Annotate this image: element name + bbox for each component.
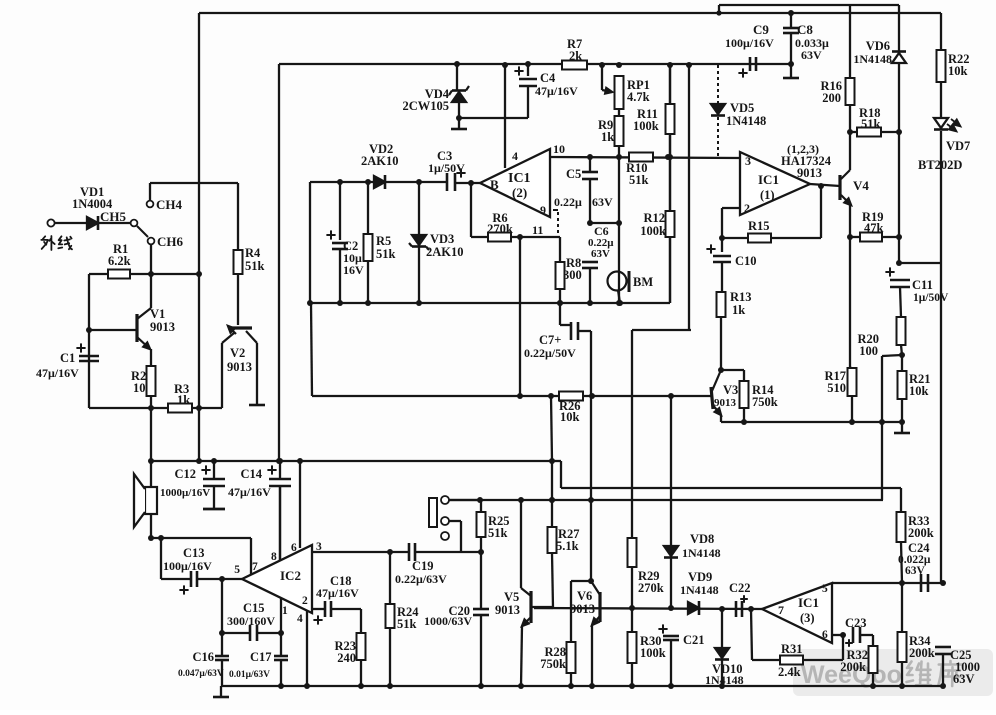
svg-text:2AK10: 2AK10	[361, 154, 399, 168]
svg-text:1μ/50V: 1μ/50V	[913, 292, 949, 304]
svg-text:10k: 10k	[909, 384, 929, 398]
svg-text:51k: 51k	[488, 526, 508, 540]
svg-text:C13: C13	[183, 546, 205, 560]
svg-text:IC1: IC1	[798, 595, 819, 610]
svg-text:100μ/16V: 100μ/16V	[725, 36, 774, 50]
svg-text:BM: BM	[633, 275, 653, 289]
svg-text:9013: 9013	[227, 360, 252, 374]
svg-text:5.1k: 5.1k	[556, 539, 579, 553]
svg-text:C10: C10	[735, 254, 757, 268]
svg-text:2AK10: 2AK10	[426, 245, 464, 259]
svg-text:C23: C23	[845, 616, 867, 630]
svg-text:VD7: VD7	[946, 139, 970, 153]
svg-text:C9: C9	[753, 22, 769, 37]
svg-text:IC2: IC2	[280, 568, 301, 583]
svg-text:51k: 51k	[245, 259, 265, 273]
svg-text:R13: R13	[730, 290, 752, 304]
svg-text:C16: C16	[192, 650, 214, 664]
svg-text:R5: R5	[376, 234, 391, 248]
svg-text:2: 2	[744, 201, 750, 215]
svg-text:VD3: VD3	[430, 232, 454, 246]
svg-text:1N4148: 1N4148	[680, 583, 719, 597]
svg-text:16V: 16V	[343, 263, 364, 277]
svg-text:240: 240	[337, 651, 356, 665]
svg-text:V6: V6	[577, 589, 592, 603]
svg-text:100μ/16V: 100μ/16V	[163, 559, 212, 573]
svg-text:200k: 200k	[909, 646, 935, 660]
svg-text:7: 7	[252, 561, 258, 573]
svg-text:510: 510	[827, 381, 846, 395]
svg-text:C1: C1	[60, 351, 75, 365]
svg-text:63V: 63V	[592, 195, 613, 209]
svg-text:9013: 9013	[714, 397, 737, 409]
svg-text:C4: C4	[540, 71, 556, 85]
svg-text:1k: 1k	[601, 130, 614, 144]
svg-text:VD6: VD6	[866, 39, 890, 53]
svg-text:R31: R31	[781, 642, 803, 656]
svg-text:0.047μ/63V: 0.047μ/63V	[178, 669, 224, 679]
svg-text:9013: 9013	[797, 166, 822, 180]
svg-text:0.01μ/63V: 0.01μ/63V	[229, 670, 270, 680]
svg-text:100: 100	[859, 344, 878, 358]
svg-text:1μ/50V: 1μ/50V	[428, 161, 465, 175]
svg-text:1000μ/16V: 1000μ/16V	[160, 487, 210, 499]
svg-text:V1: V1	[150, 307, 165, 321]
svg-text:C11: C11	[912, 278, 933, 292]
svg-text:1N4148: 1N4148	[682, 546, 721, 560]
svg-text:C15: C15	[243, 601, 265, 615]
svg-text:1N4148: 1N4148	[726, 114, 766, 128]
svg-text:C12: C12	[174, 467, 196, 481]
svg-text:C17: C17	[250, 650, 272, 664]
svg-text:63V: 63V	[801, 48, 822, 62]
svg-text:9013: 9013	[150, 320, 175, 334]
svg-text:200k: 200k	[908, 526, 934, 540]
svg-text:C22: C22	[729, 581, 751, 595]
svg-text:CH5: CH5	[100, 209, 127, 224]
svg-text:10: 10	[133, 381, 146, 395]
svg-text:(1): (1)	[760, 188, 775, 202]
svg-text:270k: 270k	[638, 581, 664, 595]
svg-text:V2: V2	[230, 346, 245, 360]
svg-text:51k: 51k	[397, 617, 417, 631]
svg-text:2.4k: 2.4k	[778, 665, 801, 679]
svg-text:10k: 10k	[560, 410, 580, 424]
svg-text:6: 6	[291, 542, 297, 554]
svg-text:1000/63V: 1000/63V	[424, 614, 472, 628]
svg-text:4: 4	[297, 613, 303, 625]
svg-text:C24: C24	[908, 541, 930, 555]
svg-text:300: 300	[563, 268, 582, 282]
svg-text:100k: 100k	[640, 646, 666, 660]
svg-text:10: 10	[553, 142, 565, 156]
svg-text:9013: 9013	[495, 603, 520, 617]
svg-text:4.7k: 4.7k	[627, 90, 650, 104]
svg-text:C7+: C7+	[539, 333, 561, 347]
svg-text:0.22μ/63V: 0.22μ/63V	[395, 572, 447, 586]
svg-text:C19: C19	[412, 559, 434, 573]
svg-text:8: 8	[271, 551, 277, 563]
svg-text:0.22μ: 0.22μ	[554, 195, 582, 209]
svg-text:C5: C5	[566, 167, 581, 181]
svg-text:1N4148: 1N4148	[853, 52, 892, 66]
svg-text:63V: 63V	[905, 565, 926, 577]
svg-text:R4: R4	[245, 246, 261, 260]
svg-text:6.2k: 6.2k	[108, 254, 131, 268]
svg-text:270k: 270k	[487, 222, 513, 236]
svg-text:10k: 10k	[948, 64, 968, 78]
svg-text:(2): (2)	[512, 185, 527, 200]
svg-text:51k: 51k	[376, 247, 396, 261]
svg-text:7: 7	[778, 603, 784, 617]
svg-text:V4: V4	[853, 178, 869, 193]
svg-text:47μ/16V: 47μ/16V	[316, 586, 359, 600]
svg-text:47μ/16V: 47μ/16V	[535, 84, 578, 98]
svg-text:47μ/16V: 47μ/16V	[36, 366, 79, 380]
svg-text:VD5: VD5	[730, 101, 754, 115]
svg-text:4: 4	[512, 149, 518, 163]
svg-text:CH6: CH6	[157, 234, 184, 249]
svg-text:1: 1	[282, 605, 288, 617]
svg-text:750k: 750k	[752, 395, 778, 409]
svg-text:0.22μ/50V: 0.22μ/50V	[524, 346, 576, 360]
svg-text:C6: C6	[594, 224, 609, 238]
svg-text:9: 9	[540, 203, 546, 217]
svg-text:5: 5	[822, 583, 828, 595]
svg-text:C8: C8	[797, 22, 813, 37]
svg-text:3: 3	[745, 154, 751, 168]
svg-text:63V: 63V	[953, 672, 975, 686]
svg-text:47μ/16V: 47μ/16V	[228, 485, 271, 499]
svg-text:63V: 63V	[591, 248, 610, 260]
svg-text:R12: R12	[643, 211, 665, 225]
svg-text:11: 11	[532, 223, 543, 237]
svg-text:47k: 47k	[864, 221, 884, 235]
svg-text:1k: 1k	[732, 303, 745, 317]
svg-text:IC1: IC1	[758, 172, 779, 187]
svg-text:VD9: VD9	[688, 570, 712, 584]
svg-text:6: 6	[822, 629, 828, 641]
svg-text:(3): (3)	[800, 611, 815, 625]
svg-text:2CW105: 2CW105	[402, 99, 449, 113]
svg-text:100k: 100k	[640, 224, 666, 238]
svg-text:IC1: IC1	[508, 171, 531, 186]
svg-text:51k: 51k	[861, 117, 881, 131]
svg-text:2: 2	[302, 595, 308, 607]
svg-text:200k: 200k	[840, 660, 866, 674]
svg-text:R15: R15	[748, 219, 770, 233]
svg-text:51k: 51k	[629, 173, 649, 187]
svg-text:5: 5	[234, 564, 240, 576]
svg-text:2k: 2k	[569, 49, 582, 63]
svg-text:100k: 100k	[633, 119, 659, 133]
svg-text:CH4: CH4	[156, 197, 183, 212]
svg-text:C14: C14	[240, 467, 262, 481]
svg-text:V5: V5	[504, 590, 519, 604]
svg-text:1k: 1k	[177, 393, 190, 407]
svg-text:VD8: VD8	[690, 532, 714, 546]
svg-text:300/160V: 300/160V	[227, 614, 275, 628]
svg-text:C21: C21	[683, 633, 705, 647]
svg-text:750k: 750k	[540, 657, 566, 671]
svg-text:B: B	[490, 177, 499, 192]
svg-text:200: 200	[822, 91, 841, 105]
svg-text:V3: V3	[723, 383, 738, 397]
